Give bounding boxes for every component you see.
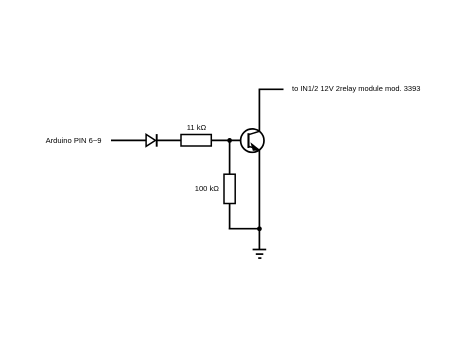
junction: base node	[227, 138, 232, 143]
wire: collector out to relay module	[259, 88, 284, 90]
svg-text:100 kΩ: 100 kΩ	[195, 184, 220, 193]
wire: emitter down to ground	[258, 150, 260, 250]
resistor R1 body	[181, 135, 211, 147]
wire: resistor R2 down	[229, 204, 231, 230]
svg-text:11 kΩ: 11 kΩ	[187, 123, 207, 132]
diode D1	[146, 134, 157, 147]
wire: diode cathode to resistor R1	[158, 139, 182, 141]
wire: base node down to resistor R2	[229, 140, 231, 174]
wire: input to diode anode	[111, 139, 146, 141]
transistor Q1 (NPN)	[241, 129, 264, 152]
wire: resistor R1 to transistor base	[211, 139, 240, 141]
wire: across to emitter net	[229, 228, 260, 230]
ground	[253, 250, 267, 259]
svg-text:Arduino PIN 6~9: Arduino PIN 6~9	[46, 136, 102, 145]
wire: collector up	[258, 89, 260, 131]
junction: emitter/ground node	[257, 226, 262, 231]
svg-text:to IN1/2 12V 2relay module mod: to IN1/2 12V 2relay module mod. 3393	[292, 84, 420, 93]
resistor R2 body	[224, 174, 235, 203]
